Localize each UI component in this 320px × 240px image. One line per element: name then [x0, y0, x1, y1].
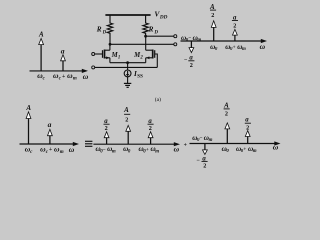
impulse A/2 at w0 bottom right [225, 123, 230, 144]
svg-text:ω: ω [174, 145, 180, 154]
svg-text:m: m [60, 150, 64, 155]
svg-text:D: D [102, 30, 107, 35]
impulse a/2 at w0+wm middle [148, 132, 153, 145]
svg-text:SS: SS [137, 74, 143, 79]
node right drain junction [144, 35, 147, 38]
svg-text:ω: ω [273, 143, 279, 152]
label -a/2 bottom right [197, 155, 208, 169]
svg-text:A: A [25, 104, 31, 112]
node input terminal bottom [92, 66, 95, 69]
label a/2 middle left [104, 118, 110, 132]
svg-text:m: m [197, 38, 201, 43]
wire current source to ground [127, 77, 129, 83]
label RD left [96, 26, 107, 36]
svg-text:m: m [209, 138, 213, 143]
wire M2 gate feed [155, 54, 158, 67]
impulse A at wc bottom [26, 112, 31, 144]
impulse a/2 at w0+wm [233, 29, 238, 41]
label A/2 [209, 3, 216, 19]
svg-text:ω: ω [260, 42, 266, 51]
svg-text:(a): (a) [155, 96, 161, 103]
resistor RD right [143, 15, 148, 36]
svg-text:+: + [184, 142, 187, 148]
svg-text:2: 2 [149, 125, 152, 132]
svg-text:2: 2 [246, 124, 249, 131]
svg-text:DD: DD [159, 15, 168, 21]
label -a/2 [184, 55, 194, 70]
label M2 [133, 52, 143, 61]
svg-text:2: 2 [203, 162, 206, 169]
svg-text:2: 2 [225, 111, 228, 118]
svg-text:a: a [61, 46, 65, 55]
label RD right [148, 26, 159, 36]
svg-text:R: R [96, 26, 102, 34]
svg-text:A: A [223, 102, 229, 110]
node left drain junction [109, 43, 112, 46]
label wc+wm [53, 71, 77, 82]
svg-text:−: − [197, 158, 201, 164]
node output terminal top [174, 35, 177, 38]
wire source node to current source [127, 63, 129, 71]
wire input to M1 gate [95, 53, 102, 55]
bottom left spectrum axis [20, 143, 74, 145]
wire VDD rail [105, 14, 150, 16]
impulse -a/2 downward at w0-wm [189, 41, 194, 53]
node output terminal bottom [174, 43, 177, 46]
ground [124, 83, 131, 87]
wire bottom input line [95, 66, 158, 68]
label w0-wm above axis bottom right [192, 134, 212, 143]
transistor M2 [146, 36, 155, 63]
label A/2 bottom right [223, 102, 230, 118]
node input terminal top [92, 53, 95, 56]
svg-text:ω: ω [83, 72, 89, 81]
svg-text:a: a [48, 120, 52, 129]
label w0+wm [225, 43, 246, 52]
impulse A at wc [39, 39, 44, 71]
input spectrum axis [30, 70, 83, 72]
impulse a at wc+wm bottom [48, 129, 53, 144]
label a/2 bottom right [245, 117, 251, 132]
label w0 middle [123, 145, 131, 154]
label wc [37, 71, 45, 82]
svg-text:−: − [200, 136, 203, 142]
svg-text:A: A [123, 106, 129, 114]
svg-text:+: + [49, 147, 52, 153]
svg-text:−: − [184, 58, 188, 64]
svg-text:D: D [153, 30, 158, 35]
impulse a/2 at w0+wm bottom right [245, 131, 250, 144]
svg-text:ω: ω [69, 145, 75, 154]
label w0-wm above axis [181, 34, 201, 43]
label wc+wm bottom [40, 144, 64, 155]
transistor M1 [103, 44, 110, 62]
label w0+wm middle [139, 145, 160, 154]
svg-text:−: − [103, 147, 106, 153]
label VDD [154, 10, 167, 21]
label a/2 middle right [148, 118, 154, 132]
svg-text:m: m [253, 149, 257, 154]
svg-text:+: + [62, 74, 65, 80]
svg-text:2: 2 [139, 56, 143, 61]
output spectrum axis [181, 40, 262, 42]
svg-text:2: 2 [190, 62, 193, 69]
svg-text:−: − [188, 36, 191, 42]
bottom right spectrum axis [190, 143, 276, 145]
svg-text:+: + [243, 147, 246, 153]
svg-text:m: m [155, 149, 159, 154]
svg-text:m: m [112, 149, 116, 154]
svg-text:m: m [73, 77, 77, 82]
current source ISS [124, 70, 131, 77]
svg-text:2: 2 [125, 117, 128, 124]
svg-text:a: a [245, 117, 249, 124]
svg-text:1: 1 [118, 56, 120, 61]
impulse -a/2 downward bottom right [203, 144, 208, 155]
label w0+wm bottom right [236, 145, 257, 154]
label w0-wm middle [96, 145, 116, 154]
label a/2 [232, 14, 238, 29]
svg-text:+: + [146, 147, 149, 153]
label A/2 middle [123, 106, 130, 123]
svg-text:A: A [38, 31, 44, 39]
wire common source line [110, 62, 146, 64]
svg-text:R: R [148, 26, 154, 34]
svg-text:2: 2 [233, 22, 236, 29]
impulse A/2 at w0 middle [126, 125, 131, 144]
svg-text:2: 2 [105, 125, 108, 132]
impulse A/2 at w0 [211, 21, 216, 41]
impulse a/2 at w0-wm middle [104, 132, 109, 145]
label w0 bottom right [222, 145, 230, 154]
wire left drain to bottom output [110, 43, 174, 45]
impulse a at wc+wm [61, 55, 66, 71]
wire right drain to top output [146, 35, 174, 37]
label ISS [133, 70, 143, 80]
label wc bottom [25, 144, 33, 155]
svg-text:2: 2 [211, 12, 214, 19]
node common source junction [126, 61, 129, 64]
label w0 [210, 43, 218, 52]
resistor RD left [107, 15, 112, 44]
bottom middle spectrum axis [93, 143, 174, 145]
svg-text:+: + [233, 45, 236, 51]
equivalence sign [85, 141, 92, 146]
svg-text:m: m [242, 47, 246, 52]
label M1 [111, 52, 121, 61]
